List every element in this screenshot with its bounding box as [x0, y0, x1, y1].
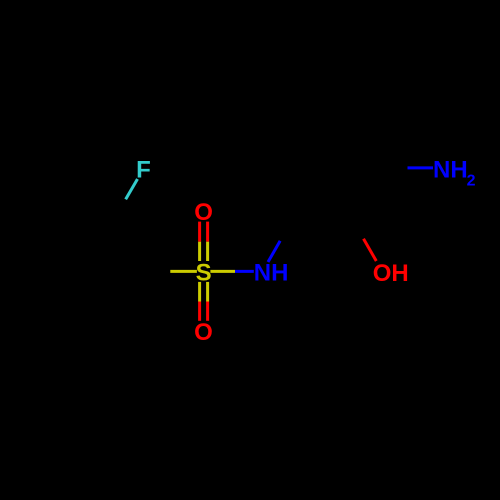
bond F-C2 : cyan half [126, 179, 138, 199]
bond C1-S : sulfur half (yellow) [170, 270, 197, 273]
bond F-C2 : carbon half (black) [114, 199, 126, 219]
bond C1-S : carbon half (black) [144, 270, 171, 273]
double bond S=O top, line 1 [198, 222, 201, 242]
svg-text:O: O [194, 199, 213, 226]
bond C9-N2 : nitrogen half (blue) [408, 166, 434, 169]
bond S-N : nitrogen half (blue) [235, 270, 254, 273]
bond C8-C9 (black) [352, 168, 382, 220]
double bond S=O bottom, line 2 [206, 282, 209, 302]
benzene ring C1-C2-C3-C4-C5-C6 (carbon bonds, black on black) [24, 220, 144, 324]
bond N-C7 : nitrogen half (blue) [268, 241, 280, 262]
svg-text:NH: NH [254, 259, 289, 286]
svg-text:OH: OH [373, 260, 409, 287]
double bond S=O top, line 2 [206, 222, 209, 242]
aromatic inner double bonds (black) [35, 227, 134, 316]
bond C8-O(H) : carbon half (black) [352, 220, 363, 239]
svg-text:F: F [136, 156, 151, 183]
bond C7-C8 (black) [292, 218, 352, 221]
bond C8-O(H) : oxygen half (red) [364, 239, 377, 261]
double bond S=O bottom, line 1 [198, 282, 201, 302]
svg-text:S: S [196, 259, 212, 286]
bond C9-N2 : carbon half (black) [382, 166, 407, 169]
svg-text:O: O [194, 319, 213, 346]
bond S-N : sulfur half (yellow) [210, 270, 235, 273]
bond N-C7 : carbon half (black) [280, 220, 292, 241]
